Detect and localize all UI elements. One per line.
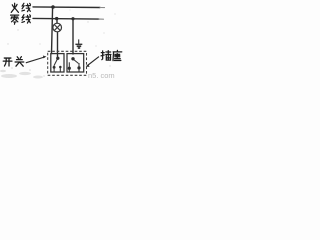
svg-text:n5. com: n5. com: [88, 71, 115, 80]
